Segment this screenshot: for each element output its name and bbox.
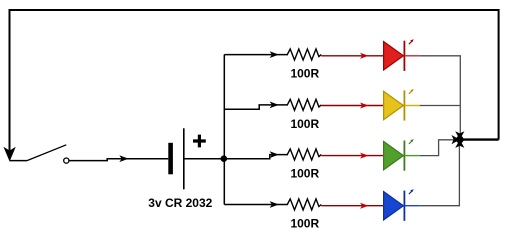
resistor R3 <box>287 149 321 160</box>
LED D3 green triangle <box>384 141 404 169</box>
wire branch 4 from trunk to resistor <box>224 204 288 206</box>
LED D1 red triangle <box>384 42 404 70</box>
node A junction dot <box>221 155 228 162</box>
arrowhead branch 1 <box>270 51 279 58</box>
arrowhead red branch 4 <box>360 203 369 209</box>
wire switch to battery <box>69 159 168 161</box>
wire LED D4 to junction (gray) <box>420 140 460 206</box>
wire branch 1 from trunk to resistor <box>224 54 288 56</box>
battery B1 plus sign <box>193 135 206 148</box>
star junction center dot <box>456 136 464 144</box>
label R4 value 100R <box>290 216 319 230</box>
LED D1 emission tick <box>409 39 414 44</box>
wire LED D3 to junction (gray) <box>420 140 454 156</box>
wire LED D4 lead out <box>404 205 419 207</box>
wire branch 2 from trunk to resistor <box>224 105 288 109</box>
LED D4 emission tick <box>409 189 414 194</box>
LED D1 cathode bar <box>403 41 405 71</box>
arrowhead red branch 3 <box>360 153 369 159</box>
arrowhead red branch 1 <box>360 53 369 59</box>
wire R1 to LED D1 (red lead) <box>321 55 383 57</box>
wire R2 to LED D2 (red lead) <box>321 105 383 107</box>
LED D2 yellow triangle <box>384 91 404 119</box>
battery B1 positive plate <box>183 128 185 189</box>
LED D4 blue triangle <box>384 192 404 220</box>
arrowhead branch 2 <box>270 102 279 109</box>
battery B1 negative plate <box>168 143 173 175</box>
arrowhead on wire switch to battery <box>119 155 128 162</box>
arrowhead branch 3 <box>270 151 279 158</box>
LED D3 cathode bar <box>403 141 405 171</box>
switch SW1 lever <box>27 145 66 161</box>
label R2 value 100R <box>290 117 319 131</box>
switch SW1 open contact circle <box>64 158 69 163</box>
LED D3 emission tick <box>409 139 414 144</box>
label R3 value 100R <box>290 167 319 181</box>
wire outer loop top and sides <box>10 10 499 151</box>
wire LED D2 lead out <box>404 105 419 107</box>
resistor R4 <box>287 199 321 210</box>
svg-text:3v CR 2032: 3v CR 2032 <box>148 196 212 210</box>
wire LED D1 lead out <box>404 55 419 57</box>
arrowhead right into star junction <box>452 135 460 144</box>
wire LED D1 to junction (gray) <box>420 56 461 106</box>
wire LED D2 to junction (gray) <box>420 106 461 134</box>
resistor R2 <box>287 99 321 110</box>
arrowhead down into star junction <box>455 131 464 139</box>
svg-text:100R: 100R <box>290 67 319 81</box>
switch SW1 contact wire <box>10 160 28 162</box>
wire R3 to LED D3 (red lead) <box>321 155 383 157</box>
svg-text:100R: 100R <box>290 117 319 131</box>
wire thick return from star junction to right border <box>460 138 499 140</box>
arrowhead down on left border <box>5 148 15 160</box>
LED D4 cathode bar <box>403 191 405 221</box>
arrowhead red branch 2 <box>360 103 369 109</box>
LED D2 emission tick <box>409 89 414 94</box>
wire LED D3 lead out <box>404 155 419 157</box>
resistor R1 <box>287 49 321 60</box>
battery B1 label 3v CR 2032 <box>148 196 212 210</box>
svg-text:100R: 100R <box>290 167 319 181</box>
wire battery to node A <box>184 158 225 160</box>
arrowhead branch 4 <box>270 201 279 208</box>
wire branch 3 from trunk to resistor <box>224 155 288 159</box>
LED D2 cathode bar <box>403 90 405 120</box>
label R1 value 100R <box>290 67 319 81</box>
wire R4 to LED D4 (red lead) <box>321 205 383 207</box>
wire trunk vertical <box>223 55 225 205</box>
svg-text:100R: 100R <box>290 216 319 230</box>
arrowhead up into star junction <box>455 140 464 148</box>
